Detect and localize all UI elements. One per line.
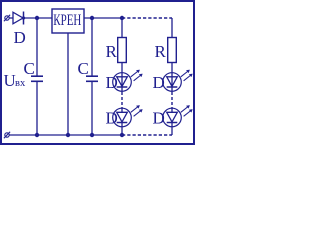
svg-text:C: C xyxy=(78,59,89,78)
svg-text:КРЕН: КРЕН xyxy=(53,12,81,29)
svg-text:R: R xyxy=(106,42,118,61)
svg-text:C: C xyxy=(24,59,35,78)
svg-text:D: D xyxy=(106,109,118,128)
svg-text:D: D xyxy=(14,28,26,47)
svg-text:D: D xyxy=(106,73,118,92)
svg-text:D: D xyxy=(153,109,165,128)
svg-text:R: R xyxy=(155,42,167,61)
svg-text:D: D xyxy=(153,73,165,92)
